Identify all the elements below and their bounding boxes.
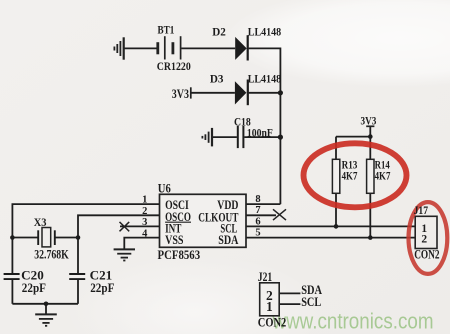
- svg-text:3: 3: [142, 217, 147, 228]
- svg-text:J21: J21: [258, 270, 272, 284]
- svg-text:SDA: SDA: [218, 232, 239, 247]
- svg-text:D2: D2: [212, 27, 226, 39]
- svg-text:www.cntronics.com: www.cntronics.com: [272, 309, 434, 334]
- svg-text:BT1: BT1: [158, 25, 175, 37]
- svg-text:CON2: CON2: [414, 248, 439, 262]
- svg-text:SCL: SCL: [301, 294, 321, 309]
- svg-text:6: 6: [255, 216, 260, 227]
- svg-text:U6: U6: [158, 181, 171, 195]
- svg-text:PCF8563: PCF8563: [158, 248, 201, 262]
- svg-text:8: 8: [255, 194, 260, 205]
- svg-text:D3: D3: [210, 74, 224, 86]
- svg-text:C18: C18: [234, 116, 251, 128]
- svg-text:7: 7: [255, 205, 260, 216]
- svg-text:J17: J17: [414, 205, 429, 217]
- svg-text:4K7: 4K7: [375, 170, 391, 182]
- svg-text:4: 4: [142, 228, 148, 239]
- svg-text:LL4148: LL4148: [248, 27, 282, 39]
- svg-text:1: 1: [142, 195, 147, 206]
- svg-text:22pF: 22pF: [90, 281, 115, 295]
- svg-text:5: 5: [255, 228, 260, 239]
- svg-text:CR1220: CR1220: [157, 61, 191, 73]
- svg-text:LL4148: LL4148: [248, 74, 282, 86]
- svg-text:3V3: 3V3: [172, 87, 189, 101]
- svg-text:VSS: VSS: [165, 232, 183, 247]
- svg-text:X3: X3: [34, 217, 47, 229]
- svg-text:2: 2: [421, 233, 427, 245]
- svg-text:22pF: 22pF: [22, 281, 47, 295]
- svg-text:100nF: 100nF: [247, 128, 273, 140]
- svg-text:2: 2: [142, 206, 147, 217]
- svg-text:4K7: 4K7: [342, 170, 358, 182]
- svg-text:32.768K: 32.768K: [34, 247, 69, 261]
- svg-text:3V3: 3V3: [361, 115, 377, 127]
